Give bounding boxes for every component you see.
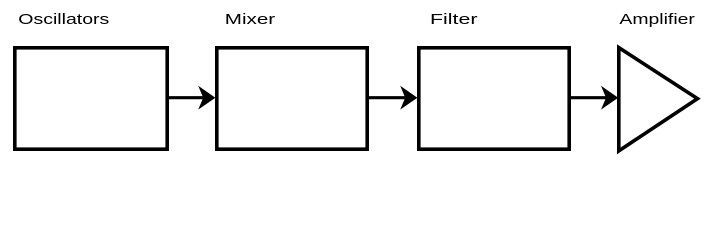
svg-text:Oscillators: Oscillators bbox=[18, 12, 109, 28]
svg-text:Mixer: Mixer bbox=[225, 12, 276, 28]
svg-text:Filter: Filter bbox=[430, 12, 478, 28]
svg-text:Amplifier: Amplifier bbox=[619, 12, 695, 28]
